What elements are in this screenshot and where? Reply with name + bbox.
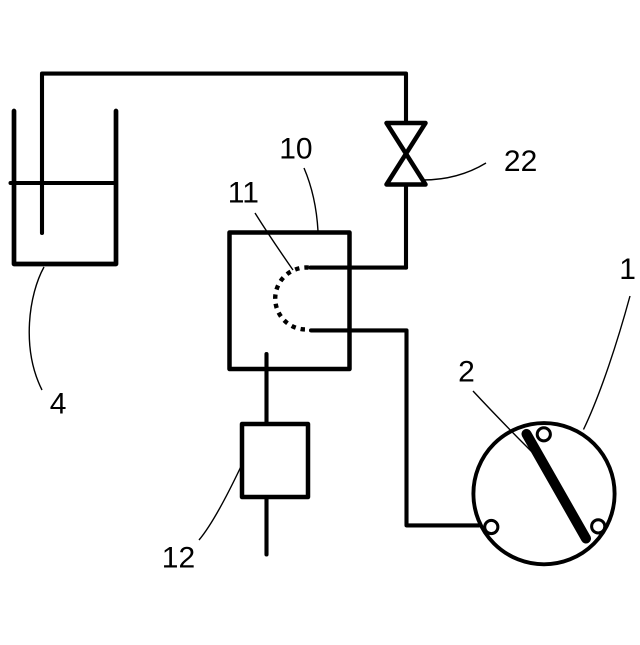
- leader line to label 11: [255, 213, 293, 270]
- svg-text:1: 1: [619, 253, 636, 286]
- wire: stub below box 12: [264, 497, 268, 555]
- bolt hole right: [592, 520, 605, 533]
- leader line to label 2: [473, 391, 532, 452]
- pump 1 (circle body): [473, 423, 614, 564]
- dashed loop 11 inside box: [275, 268, 308, 330]
- svg-text:2: 2: [458, 356, 475, 389]
- svg-text:12: 12: [162, 542, 195, 575]
- svg-text:4: 4: [50, 387, 67, 420]
- svg-text:22: 22: [504, 145, 537, 178]
- tank 4 (open-top container): [14, 111, 116, 264]
- liquid level line in tank: [11, 181, 117, 185]
- valve 22 (bowtie symbol): [387, 123, 426, 185]
- box 12 (small unit): [242, 424, 308, 497]
- leader line to label 10: [304, 168, 318, 231]
- box 10 (chamber): [230, 233, 350, 370]
- svg-text:11: 11: [228, 177, 259, 210]
- svg-text:10: 10: [279, 133, 312, 166]
- bolt hole top: [537, 428, 550, 441]
- bolt hole left: [485, 520, 498, 533]
- rotor bar 2: [527, 434, 587, 539]
- wire: upper pipe from loop to valve line: [311, 266, 407, 270]
- leader line to label 22: [423, 163, 487, 180]
- leader line to label 1: [584, 296, 631, 430]
- wire: valve to upper pipe: [404, 185, 408, 268]
- wire: stub from box 10 down to box 12: [264, 354, 268, 424]
- leader line to label 12: [199, 468, 241, 541]
- wire: lower pipe from loop to pump: [311, 330, 479, 525]
- wire: top pipe from tank dip tube to valve: [42, 74, 406, 233]
- leader line to label 4: [29, 267, 44, 390]
